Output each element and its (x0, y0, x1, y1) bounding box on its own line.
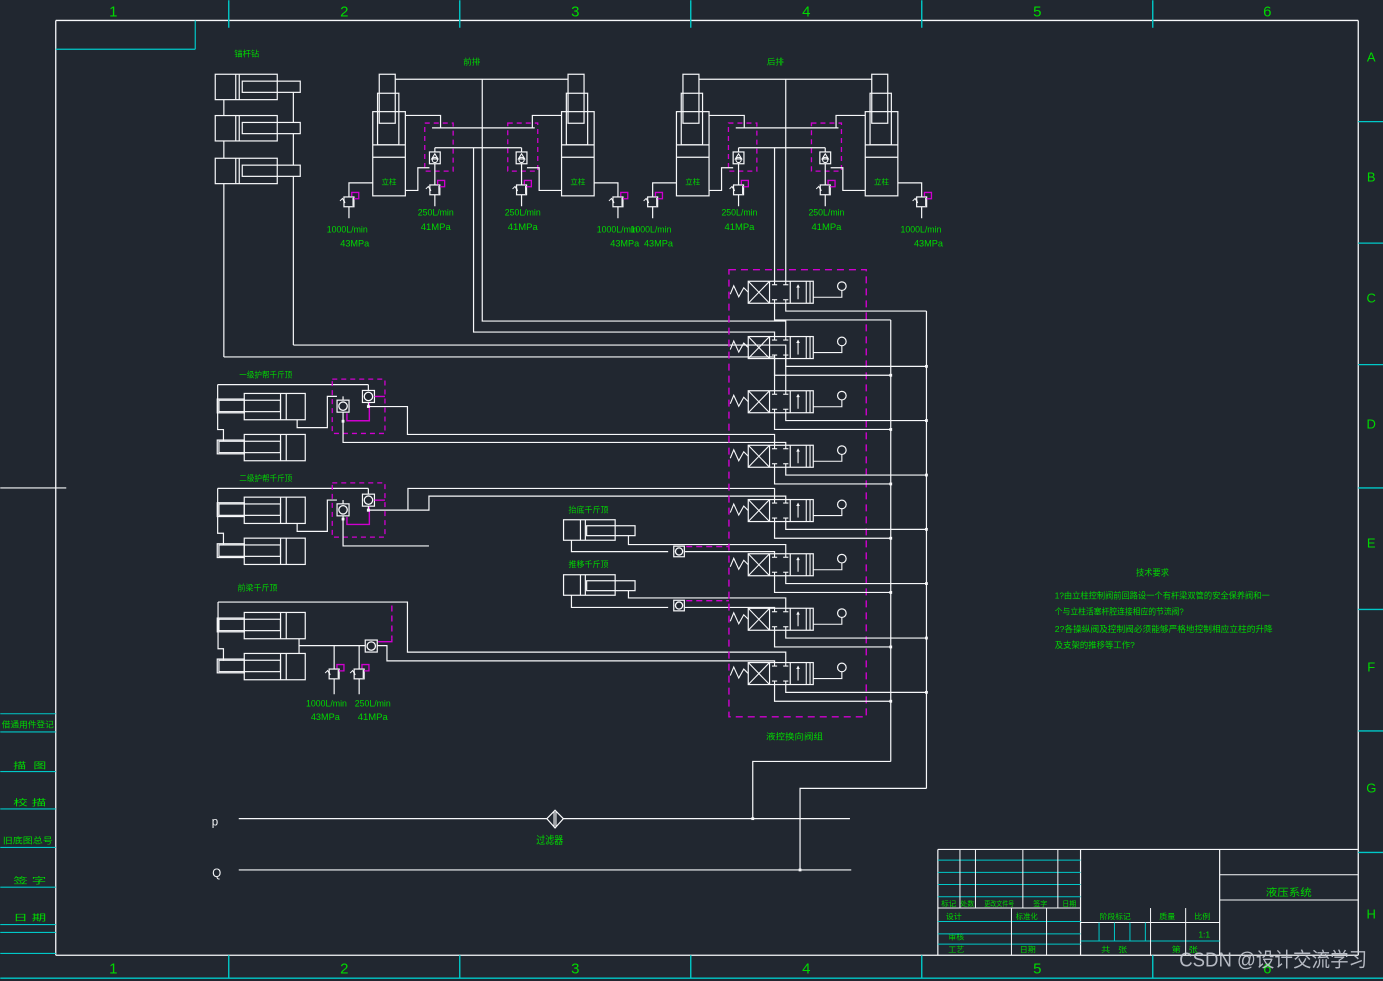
spring V1 (730, 286, 748, 297)
wire V2 port P to bus1 (775, 359, 891, 376)
cylinder upper (一级护帮千斤顶) (244, 393, 305, 419)
check valve lower (337, 400, 349, 412)
wire V5 port T to bus2 (786, 522, 927, 530)
svg-text:6: 6 (1263, 3, 1271, 20)
wire 一级 output B (343, 412, 786, 445)
wire check to centre (738, 148, 740, 152)
pilot lever V6 (813, 563, 842, 570)
wire bus1 to P line (753, 761, 891, 818)
svg-text:H: H (1367, 906, 1376, 921)
wire cyl-right upper port (836, 115, 865, 127)
prop cylinder right 立柱 (前排) (562, 112, 595, 196)
directional valve V1 body (748, 281, 813, 303)
wire V6 port P to bus1 (775, 576, 891, 593)
wire top feed line (218, 487, 369, 489)
svg-text:250L/min: 250L/min (418, 207, 454, 218)
wire pair2 centre drop A (785, 79, 787, 281)
directional valve V3 body (748, 391, 813, 413)
wire check to valve V8 (377, 646, 774, 663)
svg-text:立柱: 立柱 (685, 176, 700, 186)
pilot lever V8 (813, 672, 842, 679)
junction (367, 509, 370, 512)
cylinder 抬底千斤顶 (564, 520, 616, 541)
svg-text:43MPa: 43MPa (610, 238, 640, 249)
cylinder ZJ2 锚杆钻 (215, 116, 277, 141)
svg-text:标记: 标记 (941, 899, 956, 908)
svg-text:CSDN @设计交流学习: CSDN @设计交流学习 (1179, 948, 1367, 971)
top-left corner block (56, 48, 196, 50)
svg-text:41MPa: 41MPa (358, 712, 389, 723)
wire 二级 output A2 (408, 488, 775, 510)
check valve 抬底 (674, 546, 685, 557)
check valve 前梁 (365, 640, 377, 652)
svg-text:p: p (212, 816, 218, 828)
cylinder ZJ3 锚杆钻 (215, 158, 277, 183)
svg-text:250L/min: 250L/min (808, 207, 844, 218)
zone ticks top (228, 0, 230, 28)
svg-text:液压系统: 液压系统 (1266, 886, 1312, 899)
check box (magenta dashed) (332, 483, 385, 537)
pilot check valve right (516, 152, 527, 164)
svg-text:1?由立柱控制阀前回路设一个有杆梁双管的安全保养阀和一: 1?由立柱控制阀前回路设一个有杆梁双管的安全保养阀和一 (1055, 590, 1270, 600)
wire piston side to lower check (297, 500, 337, 531)
svg-text:前排: 前排 (463, 56, 480, 66)
svg-text:二级护帮千斤顶: 二级护帮千斤顶 (239, 473, 292, 483)
svg-text:日期: 日期 (1020, 945, 1036, 954)
svg-text:3: 3 (571, 960, 579, 977)
pilot lever V4 (813, 454, 842, 461)
prop cylinder left 立柱 (后排) (676, 112, 709, 196)
wire pair1 centre drop B (474, 148, 775, 337)
svg-text:5: 5 (1033, 3, 1041, 20)
svg-text:立柱: 立柱 (874, 176, 889, 186)
svg-text:后排: 后排 (767, 56, 784, 66)
wire pilot line upper right (482, 127, 535, 129)
svg-text:43MPa: 43MPa (340, 238, 370, 249)
pilot check valve left (733, 152, 744, 164)
cylinder ZJ1 锚杆钻 (215, 74, 277, 99)
wire top feed line (218, 384, 369, 386)
pilot box right (magenta dashed) (508, 123, 538, 171)
wire drill to valve V3 port B (293, 345, 785, 391)
check valve lower (337, 504, 349, 516)
wire piston side to lower check (297, 396, 337, 427)
pilot lever V7 (813, 617, 842, 624)
wire drill to valve V3 port A (224, 357, 775, 391)
wire 二级 output A (368, 496, 785, 510)
wire V8 port T to bus2 (786, 685, 927, 693)
bottom rule (0, 977, 1383, 979)
svg-text:E: E (1367, 535, 1376, 550)
wire rod side left (218, 488, 224, 545)
cylinder upper 前梁 (244, 612, 305, 638)
svg-text:1: 1 (109, 3, 117, 20)
check box (magenta dashed) (332, 379, 385, 433)
svg-text:日期: 日期 (1062, 900, 1076, 908)
centre tick left (0, 487, 66, 489)
pilot magenta 抬底 (686, 546, 729, 548)
pilot lever V1 (813, 290, 842, 297)
wire V3 port T to bus2 (786, 413, 927, 421)
svg-text:4: 4 (802, 960, 810, 977)
wire V7 port P to bus1 (775, 630, 891, 647)
svg-text:1000L/min: 1000L/min (630, 224, 671, 235)
svg-text:1000L/min: 1000L/min (900, 224, 941, 235)
relief valve far left (653, 183, 677, 197)
svg-text:41MPa: 41MPa (421, 222, 452, 233)
check valve 推移 (674, 600, 685, 611)
svg-text:1:1: 1:1 (1198, 929, 1210, 939)
wire V1 port P to bus1 (775, 303, 891, 320)
svg-text:2: 2 (340, 3, 348, 20)
wire top feed 前梁 (218, 602, 786, 663)
wire V7 port T to bus2 (786, 630, 927, 638)
wire V6 port T to bus2 (786, 576, 927, 584)
svg-text:抬底千斤顶: 抬底千斤顶 (569, 504, 609, 514)
magenta pilot cross (347, 507, 369, 525)
svg-text:C: C (1367, 290, 1376, 305)
pilot box left (magenta dashed) (425, 123, 453, 171)
relief valve left-mid (434, 164, 436, 185)
directional valve V8 body (748, 663, 813, 685)
pilot lever V3 (813, 400, 842, 407)
svg-text:液控换向阀组: 液控换向阀组 (766, 731, 824, 741)
directional valve V7 body (748, 608, 813, 630)
svg-text:签 字: 签 字 (13, 875, 46, 885)
wire 推移 piston out (571, 595, 668, 607)
svg-text:250L/min: 250L/min (721, 207, 757, 218)
svg-text:立柱: 立柱 (382, 176, 397, 186)
spring V7 (730, 613, 748, 624)
prop cylinder left 立柱 (前排) (373, 112, 406, 196)
wire V5 port P to bus1 (775, 522, 891, 539)
svg-text:阶段标记: 阶段标记 (1100, 911, 1132, 921)
relief valve far right (898, 183, 922, 197)
svg-text:43MPa: 43MPa (311, 712, 341, 723)
wire lower port left (405, 168, 429, 191)
directional valve V4 body (748, 445, 813, 467)
bus line 2 (T) (925, 311, 927, 788)
wire work line across (435, 147, 522, 149)
wire pilot line upper (432, 127, 482, 129)
pilot magenta 推移 (686, 600, 729, 602)
svg-text:一级护帮千斤顶: 一级护帮千斤顶 (239, 369, 292, 379)
pilot line magenta 前梁 (391, 606, 393, 639)
wire rod tops (699, 78, 872, 80)
wire cyl-left upper port (709, 115, 744, 127)
wire V2 port T to bus2 (786, 359, 927, 367)
svg-text:锚杆钻: 锚杆钻 (234, 48, 259, 58)
Q line (239, 869, 852, 871)
wire 一级 output A (368, 402, 774, 445)
junction (367, 405, 370, 408)
relief valve right-mid (824, 164, 826, 185)
svg-text:旧底图总号: 旧底图总号 (3, 835, 53, 845)
directional valve V5 body (748, 500, 813, 522)
wire check to V7 (685, 606, 775, 609)
prop cylinder right 立柱 (后排) (865, 112, 898, 196)
row ticks right (1358, 121, 1383, 123)
svg-text:工艺: 工艺 (948, 945, 964, 954)
spring V6 (730, 558, 748, 569)
wire 推移 rod out (628, 591, 785, 609)
wire work line across (739, 147, 826, 149)
wire pair2 centre drop B (774, 148, 776, 282)
wire pair1 centre drop A (482, 79, 786, 336)
wire lower check top stub (342, 500, 344, 504)
wire pilot line upper right (786, 127, 839, 129)
spring V8 (730, 667, 748, 678)
wire rod side left 前梁 (218, 602, 223, 661)
directional valve V6 body (748, 554, 813, 576)
svg-text:B: B (1367, 169, 1376, 184)
svg-text:F: F (1367, 659, 1375, 674)
svg-text:质量: 质量 (1159, 911, 1176, 921)
cylinder upper (二级护帮千斤顶) (244, 497, 305, 523)
spring V2 (730, 341, 748, 352)
svg-text:技术要求: 技术要求 (1136, 567, 1169, 577)
directional valve V2 body (748, 337, 813, 359)
wire V3 port P to bus1 (775, 413, 891, 430)
zone ticks bottom (228, 955, 230, 978)
wire check to centre (434, 148, 436, 152)
wire lower port right (527, 168, 562, 191)
revision table (938, 859, 1081, 861)
wire 抬底 piston out (571, 540, 668, 551)
wire rod side left (218, 385, 224, 442)
wire lower port left (709, 168, 733, 191)
relief valve 前梁 2 (358, 646, 360, 669)
svg-text:个与立柱活塞杆腔连接相应的节流阀?: 个与立柱活塞杆腔连接相应的节流阀? (1055, 606, 1184, 616)
cylinder lower (二级护帮千斤顶) (244, 538, 305, 564)
svg-text:前梁千斤顶: 前梁千斤顶 (238, 582, 278, 592)
wire cyl-left upper port (405, 115, 440, 127)
pilot lever V2 (813, 346, 842, 353)
svg-text:立柱: 立柱 (570, 176, 585, 186)
svg-text:共 张: 共 张 (1101, 945, 1128, 954)
magenta pilot cross (347, 403, 369, 421)
svg-text:校 描: 校 描 (13, 797, 47, 807)
svg-text:41MPa: 41MPa (811, 222, 842, 233)
svg-text:日 期: 日 期 (13, 912, 46, 922)
svg-text:3: 3 (571, 3, 579, 20)
svg-text:G: G (1366, 780, 1376, 795)
svg-text:过滤器: 过滤器 (536, 833, 563, 846)
wire V1 port T to bus2 (786, 303, 927, 311)
wire V8 port P to bus1 (775, 685, 891, 702)
svg-text:比例: 比例 (1194, 911, 1210, 921)
svg-text:设计: 设计 (946, 911, 963, 921)
check valve upper (362, 390, 374, 402)
spring V5 (730, 504, 748, 515)
svg-text:签字: 签字 (1033, 899, 1047, 908)
wire drill group rod drop (292, 93, 294, 123)
svg-text:Q: Q (212, 868, 221, 880)
wire rod tops (395, 78, 568, 80)
title block outer (938, 848, 1358, 850)
spring V4 (730, 450, 748, 461)
left margin rules (0, 713, 56, 715)
svg-text:1000L/min: 1000L/min (306, 698, 347, 709)
svg-text:处数: 处数 (960, 899, 974, 908)
relief valve right-mid (521, 164, 523, 185)
svg-text:1000L/min: 1000L/min (327, 224, 368, 235)
svg-text:250L/min: 250L/min (505, 207, 541, 218)
P line (239, 818, 850, 820)
pilot check valve right (820, 152, 831, 164)
wire check to V6 (685, 552, 775, 554)
svg-text:更改文件号: 更改文件号 (984, 899, 1014, 908)
pilot box right (magenta dashed) (811, 123, 841, 171)
svg-text:及支架的推移等工作?: 及支架的推移等工作? (1055, 640, 1135, 650)
svg-text:标准化: 标准化 (1016, 911, 1038, 921)
wire cyl-right upper port (532, 115, 561, 127)
svg-text:描 图: 描 图 (13, 760, 46, 770)
bus line 1 (P) (890, 320, 892, 762)
svg-text:4: 4 (802, 3, 810, 20)
svg-text:41MPa: 41MPa (508, 222, 539, 233)
relief valve left-mid (738, 164, 740, 185)
wire pilot line upper (736, 127, 786, 129)
wire bus2 to Q line (800, 788, 926, 870)
spring V3 (730, 395, 748, 406)
pilot lever V5 (813, 509, 842, 516)
wire drill group left drop (223, 100, 225, 116)
pilot check valve left (429, 152, 440, 164)
wire 二级 output B (343, 516, 429, 546)
wire lower port right (831, 168, 866, 191)
wire 抬底 rod out (628, 536, 785, 554)
svg-text:2: 2 (340, 960, 348, 977)
wire V4 port P to bus1 (775, 467, 891, 484)
svg-text:借通用件登记: 借通用件登记 (2, 719, 54, 729)
wire V4 port T to bus2 (786, 467, 927, 475)
svg-text:D: D (1367, 416, 1376, 431)
svg-text:41MPa: 41MPa (724, 222, 755, 233)
svg-text:推移千斤顶: 推移千斤顶 (569, 559, 609, 569)
svg-text:43MPa: 43MPa (914, 238, 944, 249)
svg-text:1: 1 (109, 960, 117, 977)
border frame (56, 19, 1359, 21)
svg-text:5: 5 (1033, 960, 1041, 977)
wire piston line 前梁 (298, 639, 300, 654)
svg-text:43MPa: 43MPa (644, 238, 674, 249)
manifold box 液控换向阀组 (magenta dashed) (729, 270, 866, 717)
cylinder 推移千斤顶 (564, 575, 616, 596)
svg-text:审核: 审核 (948, 932, 965, 942)
relief valve 前梁 1 (333, 646, 335, 669)
title box 液压系统 (1220, 874, 1359, 876)
svg-text:250L/min: 250L/min (355, 698, 391, 709)
pilot box left (magenta dashed) (728, 123, 756, 171)
relief valve far left (349, 183, 373, 197)
cylinder lower 前梁 (244, 653, 305, 679)
svg-text:2?各操纵阀及控制阀必须能够严格地控制相应立柱的升降: 2?各操纵阀及控制阀必须能够严格地控制相应立柱的升降 (1055, 624, 1273, 634)
wire lower check top stub (342, 396, 344, 400)
cylinder lower (一级护帮千斤顶) (244, 434, 305, 460)
svg-text:A: A (1367, 49, 1376, 64)
check valve upper (362, 494, 374, 506)
relief valve far right (594, 183, 618, 197)
filter 过滤器 (547, 810, 564, 828)
